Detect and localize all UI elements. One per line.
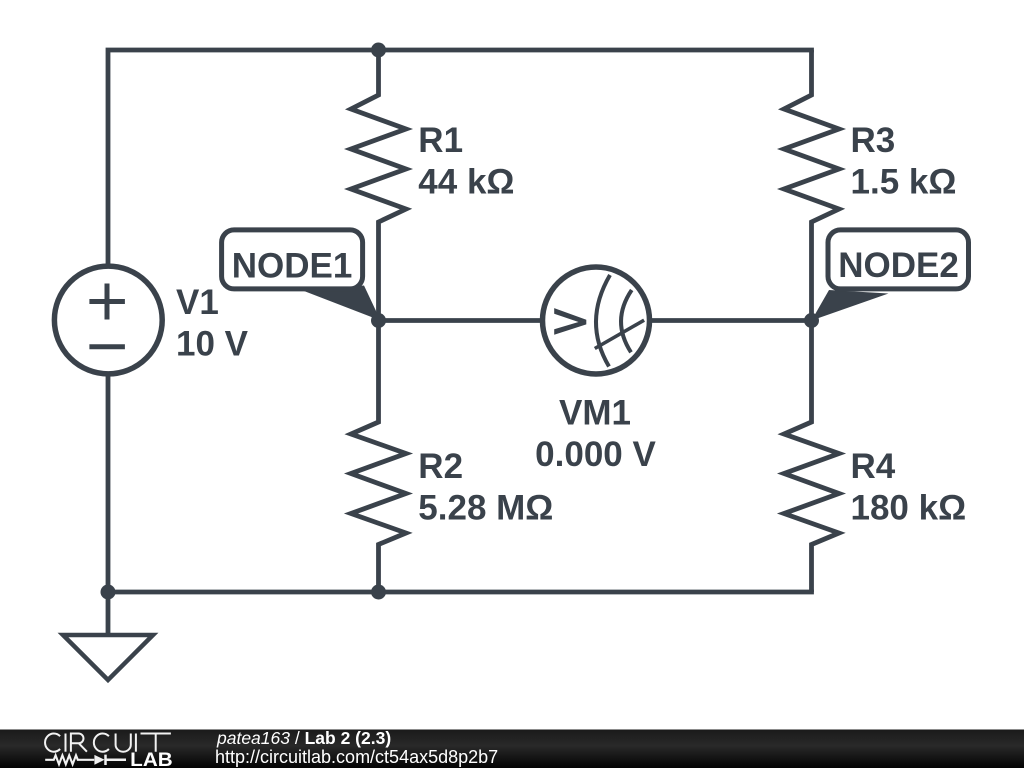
resistor R3 — [784, 50, 839, 321]
svg-text:NODE2: NODE2 — [838, 246, 959, 285]
svg-text:patea163 / Lab 2 (2.3): patea163 / Lab 2 (2.3) — [216, 728, 391, 748]
svg-text:NODE1: NODE1 — [232, 247, 353, 286]
node NODE1 flag — [222, 230, 381, 321]
wire middle left — [379, 318, 546, 323]
CircuitLab logo CIRCUIT — [45, 733, 171, 751]
resistor R2 — [351, 321, 406, 593]
svg-text:44 kΩ: 44 kΩ — [418, 163, 514, 202]
svg-text:LAB: LAB — [130, 750, 173, 768]
voltage source V1 — [54, 266, 162, 374]
svg-text:5.28 MΩ: 5.28 MΩ — [418, 488, 553, 527]
wire top rail — [108, 50, 814, 265]
ground — [63, 592, 153, 680]
resistor R1 — [351, 50, 406, 321]
junction dot bottom left — [101, 585, 116, 600]
svg-text:VM1: VM1 — [559, 394, 631, 433]
CircuitLab logo resistor-diode glyph — [45, 755, 126, 765]
voltmeter VM1 — [543, 267, 650, 374]
svg-text:R3: R3 — [851, 121, 896, 160]
svg-text:10 V: 10 V — [176, 325, 249, 364]
footer bar — [0, 730, 1024, 768]
svg-text:V1: V1 — [176, 283, 219, 322]
svg-text:R1: R1 — [418, 121, 463, 160]
svg-text:0.000 V: 0.000 V — [535, 435, 656, 474]
svg-text:R2: R2 — [418, 447, 463, 486]
node NODE2 flag — [812, 230, 969, 321]
svg-text:R4: R4 — [851, 447, 896, 486]
junction dot node A (NODE1) — [371, 313, 386, 328]
svg-text:http://circuitlab.com/ct54ax5d: http://circuitlab.com/ct54ax5d8p2b7 — [215, 747, 498, 767]
junction dot top — [371, 43, 386, 58]
wire middle right — [648, 318, 812, 323]
wire bottom rail — [108, 375, 814, 592]
junction dot bottom middle — [371, 585, 386, 600]
svg-text:1.5 kΩ: 1.5 kΩ — [851, 163, 957, 202]
svg-text:180 kΩ: 180 kΩ — [851, 488, 967, 527]
junction dot node B (NODE2) — [804, 313, 819, 328]
resistor R4 — [784, 321, 839, 593]
